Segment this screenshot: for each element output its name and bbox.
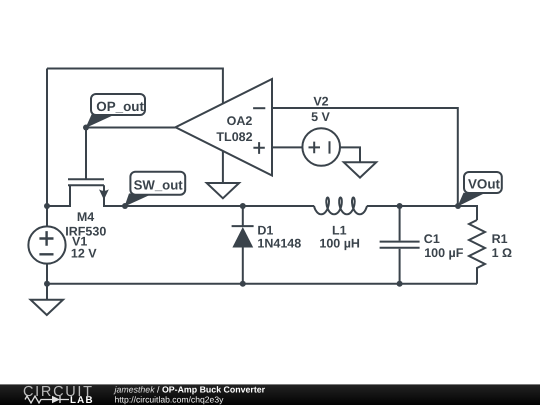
ground under op-amp xyxy=(207,183,239,198)
node left rail dot xyxy=(44,203,50,209)
wire inductor to VOut node xyxy=(367,205,458,207)
diode D1 triangle xyxy=(232,227,253,248)
diode D1 lower wire xyxy=(242,248,244,284)
op-amp lower power stem xyxy=(222,151,224,183)
node bottom left dot xyxy=(44,281,50,287)
wire left rail xyxy=(46,69,48,207)
flag OP_out box xyxy=(91,94,502,195)
wire VOut node to R1 top xyxy=(458,206,477,220)
resistor R1 zigzag xyxy=(469,220,485,284)
svg-text:C1: C1 xyxy=(424,232,440,246)
node C1 top dot xyxy=(397,203,403,209)
flag VOut box xyxy=(464,172,502,193)
node C1 bottom dot xyxy=(397,281,403,287)
wire bottom rail xyxy=(47,283,477,285)
svg-text:D1: D1 xyxy=(257,224,273,238)
svg-text:OA2: OA2 xyxy=(227,114,253,128)
logo resistor-diode glyph xyxy=(25,396,69,403)
svg-text:VOut: VOut xyxy=(468,176,501,191)
inductor L1 coil xyxy=(314,198,367,215)
wire V1 bottom xyxy=(46,264,48,284)
op-amp minus input wire xyxy=(272,108,458,206)
op-amp plus input wire xyxy=(272,146,303,148)
capacitor C1 top wire xyxy=(399,206,401,241)
transistor M4 channel bar xyxy=(68,184,104,186)
voltage source V1 xyxy=(28,226,65,263)
wire ground stem V1 xyxy=(46,284,48,300)
wire V1 top xyxy=(46,206,48,226)
svg-text:100 µF: 100 µF xyxy=(424,246,464,260)
svg-text:1 Ω: 1 Ω xyxy=(492,246,512,260)
diode D1 anode wire xyxy=(242,206,244,226)
op-amp minus symbol xyxy=(253,107,265,109)
node VOut dot xyxy=(455,203,461,209)
logo diode triangle xyxy=(52,396,60,403)
svg-text:SW_out: SW_out xyxy=(134,178,184,193)
op-amp OA2 body xyxy=(176,79,273,176)
node OP_out dot xyxy=(83,125,89,131)
flag OP_out pointer xyxy=(86,114,118,129)
transistor M4 drain leg xyxy=(104,185,125,206)
transistor M4 arrow xyxy=(99,189,109,199)
voltage source V2 xyxy=(302,128,340,166)
transistor M4 gate bar xyxy=(68,178,104,180)
svg-text:OP_out: OP_out xyxy=(96,99,144,114)
svg-text:L1: L1 xyxy=(332,224,347,238)
svg-text:R1: R1 xyxy=(492,232,508,246)
ground at V1 xyxy=(31,300,63,315)
wire top rail xyxy=(47,69,223,104)
svg-text:LAB: LAB xyxy=(70,395,94,405)
node D1 top dot xyxy=(240,203,246,209)
svg-text:12 V: 12 V xyxy=(71,246,97,260)
flag SW_out pointer xyxy=(125,194,154,207)
wire V2 to ground xyxy=(340,147,360,162)
svg-text:http://circuitlab.com/chq2e3y: http://circuitlab.com/chq2e3y xyxy=(115,394,225,404)
flag VOut pointer xyxy=(458,193,486,207)
transistor M4 gate wire xyxy=(85,129,87,180)
wire rail SW node to inductor xyxy=(125,205,314,207)
node D1 bottom dot xyxy=(240,281,246,287)
op-amp U1 output wire xyxy=(86,127,176,129)
svg-text:TL082: TL082 xyxy=(216,130,252,144)
svg-text:1N4148: 1N4148 xyxy=(257,237,301,251)
flag SW_out box xyxy=(130,172,185,195)
ground at V2 xyxy=(344,162,376,177)
svg-text:5 V: 5 V xyxy=(311,110,330,124)
diode D1 cathode bar xyxy=(232,225,254,227)
svg-text:100 µH: 100 µH xyxy=(319,237,360,251)
svg-text:M4: M4 xyxy=(77,210,94,224)
op-amp plus symbol xyxy=(253,142,264,154)
capacitor C1 bottom wire xyxy=(399,249,401,284)
svg-text:V2: V2 xyxy=(313,94,328,108)
transistor M4 source leg xyxy=(47,185,70,206)
svg-text:jamesthek / OP-Amp Buck Conver: jamesthek / OP-Amp Buck Converter xyxy=(114,384,266,394)
node SW_out dot xyxy=(122,203,128,209)
capacitor C1 plates xyxy=(380,242,420,248)
